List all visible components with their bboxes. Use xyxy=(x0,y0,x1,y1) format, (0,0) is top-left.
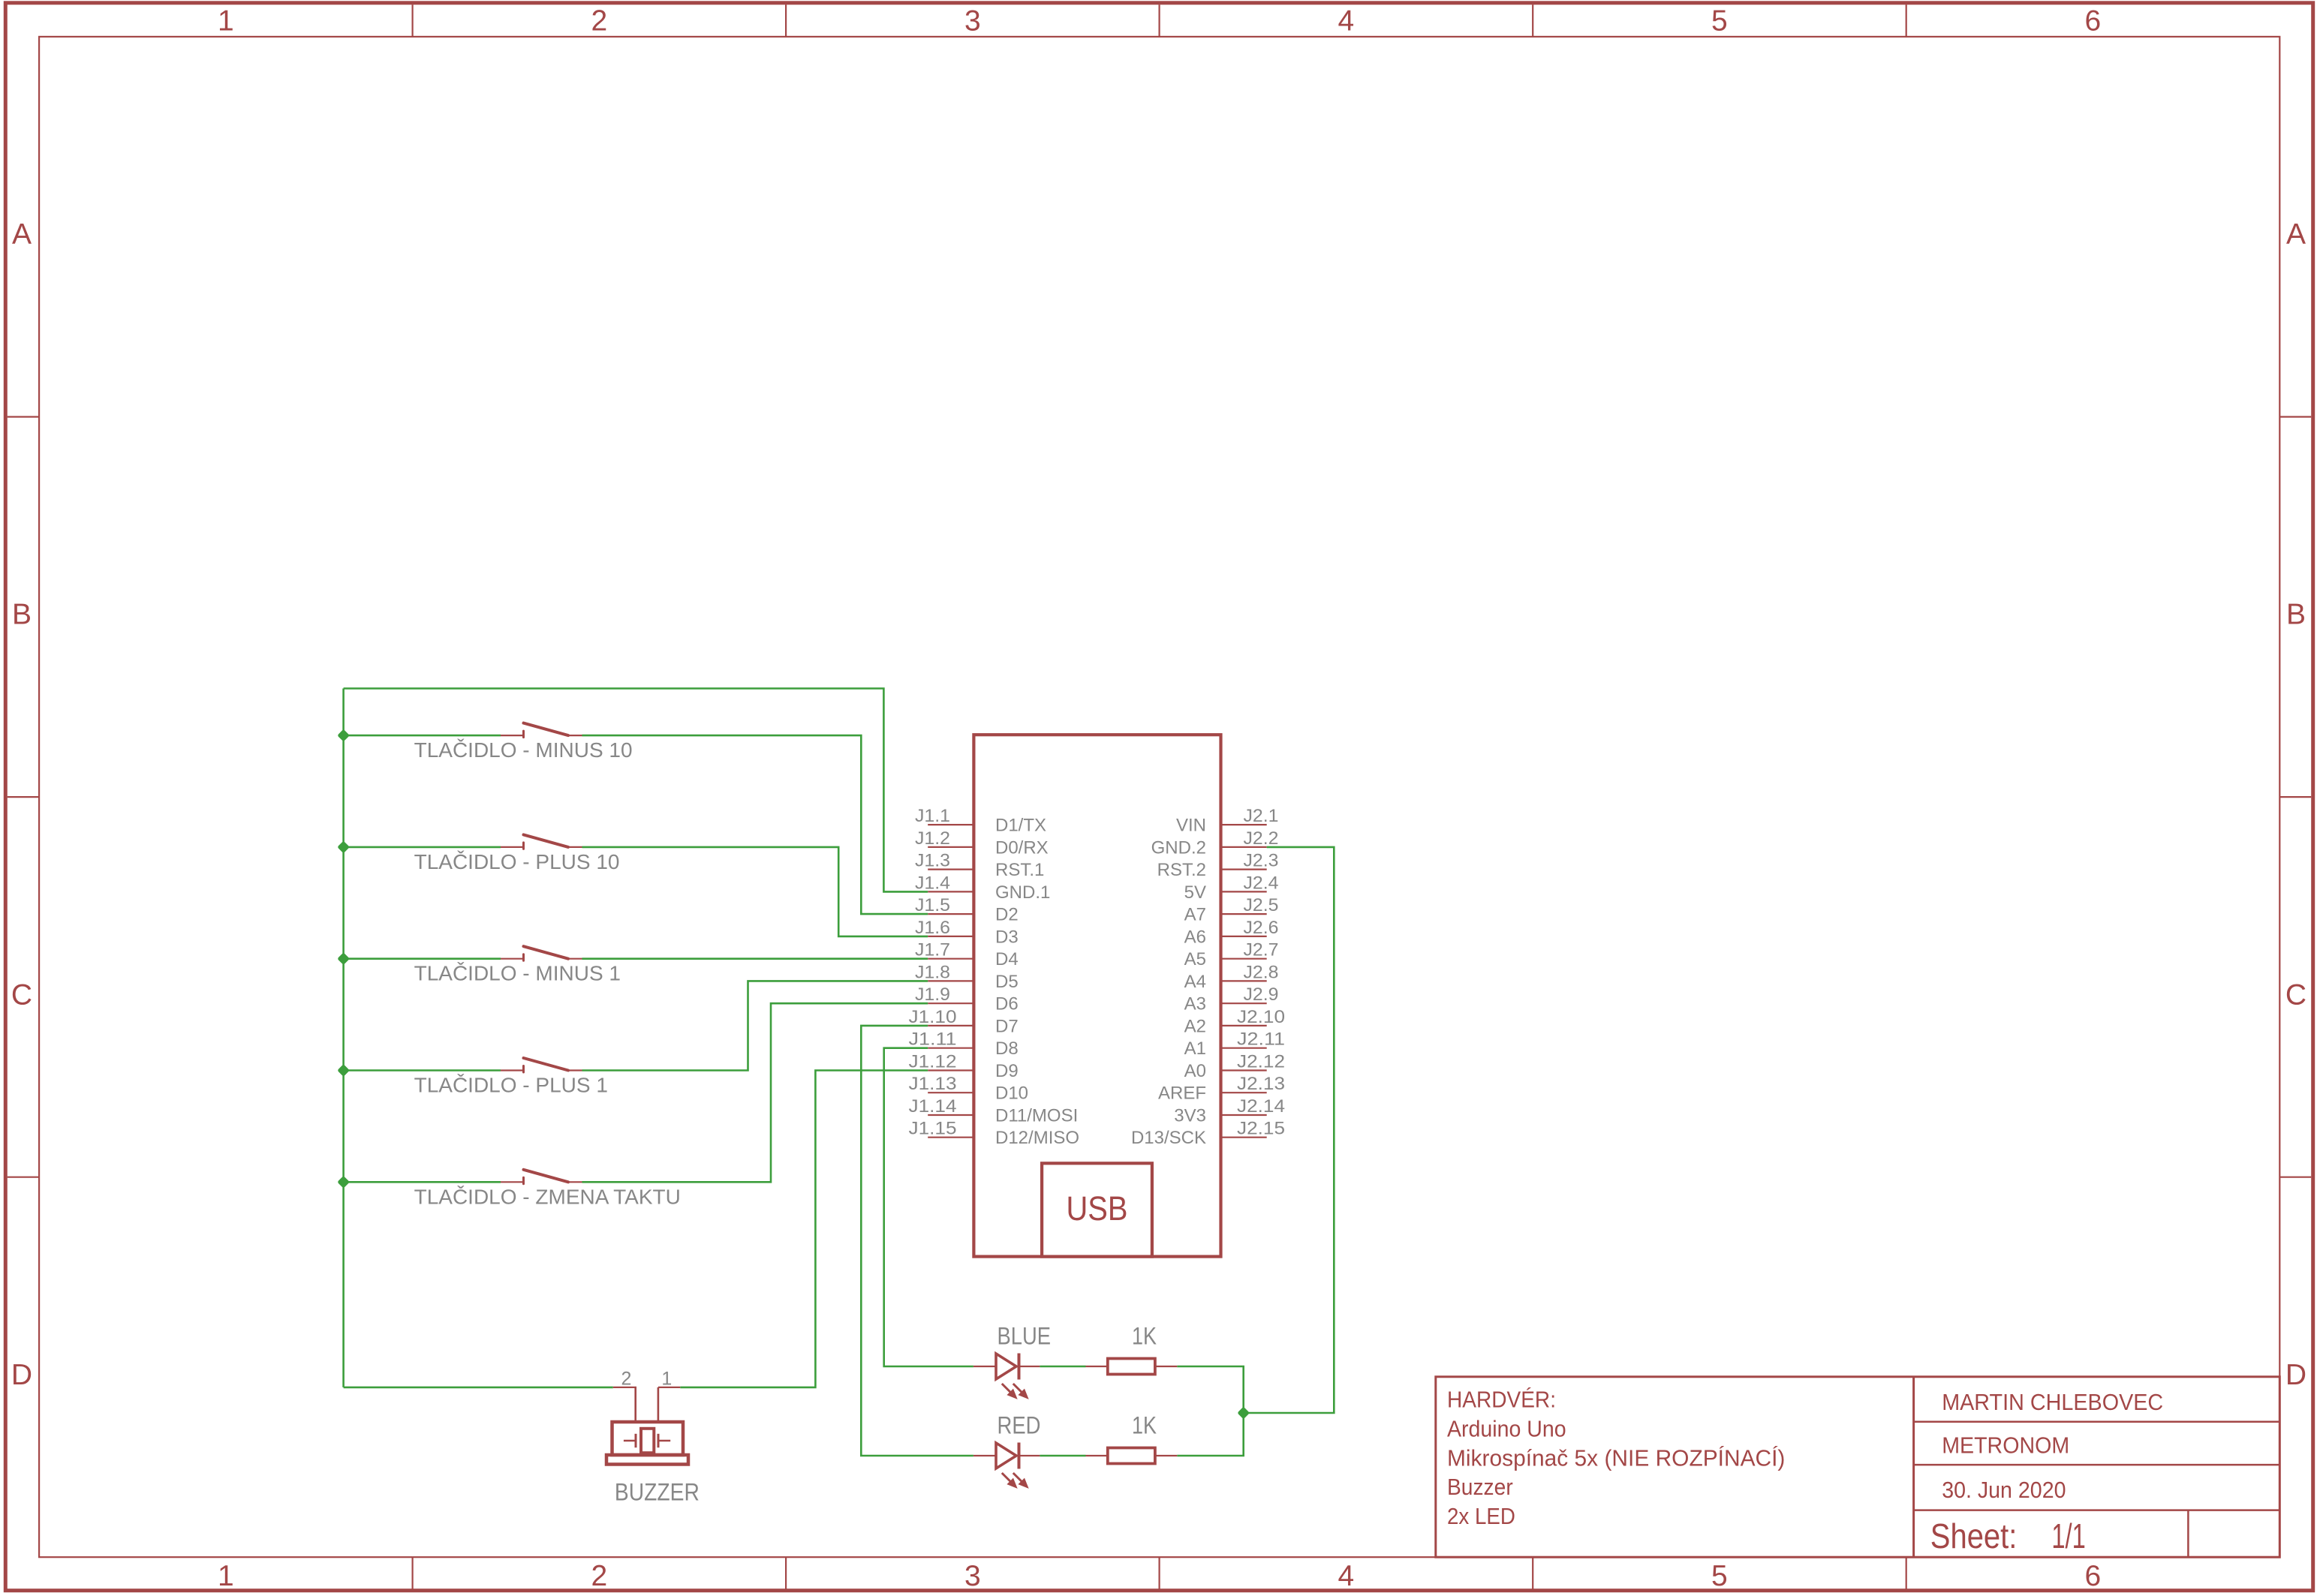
svg-text:J1.15: J1.15 xyxy=(909,1119,957,1139)
svg-text:1: 1 xyxy=(661,1368,672,1389)
svg-text:VIN: VIN xyxy=(1176,816,1206,836)
svg-text:A7: A7 xyxy=(1184,905,1206,925)
svg-text:D5: D5 xyxy=(995,972,1019,992)
svg-text:BLUE: BLUE xyxy=(998,1322,1052,1349)
svg-text:D1/TX: D1/TX xyxy=(995,816,1046,836)
svg-text:C: C xyxy=(2285,978,2306,1011)
svg-text:A4: A4 xyxy=(1184,972,1206,992)
svg-text:AREF: AREF xyxy=(1158,1084,1206,1104)
svg-text:J2.15: J2.15 xyxy=(1237,1119,1285,1139)
svg-text:2: 2 xyxy=(591,5,608,38)
svg-text:J1.13: J1.13 xyxy=(909,1074,957,1094)
svg-text:3: 3 xyxy=(964,5,981,38)
svg-text:Arduino Uno: Arduino Uno xyxy=(1447,1416,1566,1442)
svg-text:D3: D3 xyxy=(995,927,1019,947)
svg-text:3: 3 xyxy=(964,1560,981,1592)
svg-text:D11/MOSI: D11/MOSI xyxy=(995,1106,1078,1126)
svg-text:RST.2: RST.2 xyxy=(1157,860,1206,880)
svg-text:BUZZER: BUZZER xyxy=(615,1479,700,1506)
svg-text:J1.11: J1.11 xyxy=(909,1029,957,1050)
svg-text:D0/RX: D0/RX xyxy=(995,837,1049,858)
svg-text:J1.3: J1.3 xyxy=(915,851,950,871)
svg-text:RST.1: RST.1 xyxy=(995,860,1044,880)
svg-text:2x LED: 2x LED xyxy=(1447,1503,1515,1529)
svg-text:J1.14: J1.14 xyxy=(909,1096,957,1117)
svg-text:J1.2: J1.2 xyxy=(915,828,950,849)
svg-text:J2.8: J2.8 xyxy=(1244,962,1279,982)
svg-text:GND.1: GND.1 xyxy=(995,882,1050,903)
svg-text:4: 4 xyxy=(1338,1560,1355,1592)
svg-text:D9: D9 xyxy=(995,1061,1019,1081)
svg-text:D12/MISO: D12/MISO xyxy=(995,1128,1079,1148)
svg-text:A3: A3 xyxy=(1184,994,1206,1014)
svg-text:J1.6: J1.6 xyxy=(915,918,950,938)
svg-text:D4: D4 xyxy=(995,949,1019,969)
svg-text:J1.9: J1.9 xyxy=(915,984,950,1005)
svg-text:GND.2: GND.2 xyxy=(1151,837,1206,858)
svg-text:J2.12: J2.12 xyxy=(1237,1052,1285,1072)
svg-text:4: 4 xyxy=(1338,5,1355,38)
svg-text:J2.3: J2.3 xyxy=(1244,851,1279,871)
svg-text:J2.4: J2.4 xyxy=(1244,873,1279,893)
svg-text:D: D xyxy=(11,1359,32,1391)
svg-text:RED: RED xyxy=(998,1411,1041,1438)
svg-text:A: A xyxy=(12,218,32,251)
svg-text:D: D xyxy=(2285,1359,2306,1391)
svg-text:J2.7: J2.7 xyxy=(1244,940,1279,960)
svg-text:D7: D7 xyxy=(995,1016,1019,1036)
svg-text:TLAČIDLO - PLUS 10: TLAČIDLO - PLUS 10 xyxy=(414,850,620,873)
svg-text:J1.8: J1.8 xyxy=(915,962,950,982)
svg-text:J2.11: J2.11 xyxy=(1237,1029,1285,1050)
svg-text:J2.5: J2.5 xyxy=(1244,895,1279,915)
svg-text:J2.13: J2.13 xyxy=(1237,1074,1285,1094)
svg-text:2: 2 xyxy=(621,1368,631,1389)
svg-text:J2.10: J2.10 xyxy=(1237,1007,1285,1027)
svg-text:D10: D10 xyxy=(995,1084,1028,1104)
svg-text:B: B xyxy=(12,599,32,631)
svg-text:C: C xyxy=(11,978,32,1011)
svg-text:30. Jun 2020: 30. Jun 2020 xyxy=(1942,1477,2066,1503)
svg-text:A6: A6 xyxy=(1184,927,1206,947)
svg-text:TLAČIDLO - MINUS 10: TLAČIDLO - MINUS 10 xyxy=(414,738,633,762)
svg-text:A2: A2 xyxy=(1184,1016,1206,1036)
svg-text:J1.5: J1.5 xyxy=(915,895,950,915)
svg-text:J1.4: J1.4 xyxy=(915,873,950,893)
svg-text:USB: USB xyxy=(1067,1189,1128,1228)
svg-text:B: B xyxy=(2286,599,2306,631)
svg-text:MARTIN CHLEBOVEC: MARTIN CHLEBOVEC xyxy=(1942,1389,2163,1415)
svg-text:A1: A1 xyxy=(1184,1038,1206,1059)
svg-text:6: 6 xyxy=(2085,1560,2102,1592)
svg-text:D6: D6 xyxy=(995,994,1019,1014)
svg-text:D2: D2 xyxy=(995,905,1019,925)
svg-text:5: 5 xyxy=(1711,5,1728,38)
svg-text:D8: D8 xyxy=(995,1038,1019,1059)
svg-text:5: 5 xyxy=(1711,1560,1728,1592)
svg-text:5V: 5V xyxy=(1184,882,1206,903)
svg-text:J2.6: J2.6 xyxy=(1244,918,1279,938)
svg-text:J1.12: J1.12 xyxy=(909,1052,957,1072)
svg-text:1K: 1K xyxy=(1132,1322,1157,1349)
svg-text:METRONOM: METRONOM xyxy=(1942,1432,2069,1459)
svg-text:J2.14: J2.14 xyxy=(1237,1096,1285,1117)
svg-text:J1.10: J1.10 xyxy=(909,1007,957,1027)
svg-text:1: 1 xyxy=(218,1560,234,1592)
svg-text:1/1: 1/1 xyxy=(2051,1516,2085,1555)
svg-text:D13/SCK: D13/SCK xyxy=(1131,1128,1206,1148)
svg-text:A: A xyxy=(2286,218,2306,251)
svg-text:A5: A5 xyxy=(1184,949,1206,969)
svg-text:1K: 1K xyxy=(1132,1411,1157,1438)
svg-text:J1.7: J1.7 xyxy=(915,940,950,960)
svg-text:TLAČIDLO - ZMENA TAKTU: TLAČIDLO - ZMENA TAKTU xyxy=(414,1185,681,1208)
svg-text:6: 6 xyxy=(2085,5,2102,38)
svg-text:J2.1: J2.1 xyxy=(1244,806,1279,826)
svg-text:J2.2: J2.2 xyxy=(1244,828,1279,849)
svg-text:1: 1 xyxy=(218,5,234,38)
svg-text:2: 2 xyxy=(591,1560,608,1592)
svg-text:Mikrospínač 5x (NIE ROZPÍNACÍ): Mikrospínač 5x (NIE ROZPÍNACÍ) xyxy=(1447,1444,1785,1471)
svg-text:TLAČIDLO - MINUS 1: TLAČIDLO - MINUS 1 xyxy=(414,962,621,985)
svg-text:TLAČIDLO - PLUS 1: TLAČIDLO - PLUS 1 xyxy=(414,1074,608,1097)
svg-text:Sheet:: Sheet: xyxy=(1930,1516,2018,1555)
svg-text:J2.9: J2.9 xyxy=(1244,984,1279,1005)
svg-text:Buzzer: Buzzer xyxy=(1447,1474,1513,1500)
svg-text:A0: A0 xyxy=(1184,1061,1206,1081)
svg-text:HARDVÉR:: HARDVÉR: xyxy=(1447,1387,1556,1413)
svg-text:3V3: 3V3 xyxy=(1174,1106,1206,1126)
svg-text:J1.1: J1.1 xyxy=(915,806,950,826)
